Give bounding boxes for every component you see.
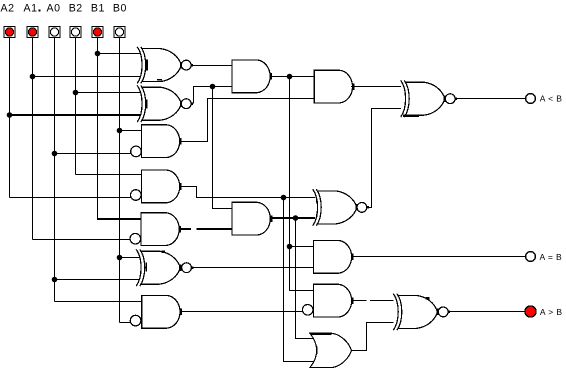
wire A1 to U1 XNOR input 2 bbox=[33, 76, 141, 78]
wire U13 output to U15 input 1 bbox=[353, 300, 366, 302]
switch SW-B2 (off) bbox=[70, 26, 81, 37]
or U16 (bottom OR) bbox=[310, 333, 352, 368]
and U7 with inverted low input (A0 AND !B0) bbox=[130, 295, 182, 328]
xnor U2 (bit2 equality) bbox=[137, 85, 193, 122]
and U10 (A less path) bbox=[314, 70, 354, 103]
switch SW-B0 (off) bbox=[114, 26, 125, 37]
wire U12 output to LED A=B bbox=[353, 256, 525, 258]
junction dot A0/U6 bbox=[52, 277, 58, 283]
svg-text:A = B: A = B bbox=[540, 252, 563, 262]
wire B2 to U4 AND input 1 bbox=[76, 174, 142, 176]
junction dot A1/U1 bbox=[30, 74, 36, 80]
stray dot before A0 label bbox=[39, 10, 41, 12]
wire B0 to U6 XNOR input 1 bbox=[120, 257, 140, 259]
junction dot U2 net bbox=[210, 84, 216, 90]
U2 high-input tick on arc bbox=[146, 99, 148, 108]
and U13 with inverted low input (A greater path) bbox=[302, 284, 353, 317]
wire A2 column vertical bbox=[9, 38, 11, 198]
wire U8 net down to U12 input 1 bbox=[290, 77, 314, 247]
wire A1 column vertical bbox=[32, 38, 34, 240]
U6 high-input tick on arc bbox=[145, 263, 147, 272]
svg-text:A > B: A > B bbox=[540, 307, 563, 317]
wire U14 output to LED A&lt;B bbox=[455, 98, 526, 100]
junction dot B0/U3 bbox=[117, 128, 123, 134]
svg-text:A0: A0 bbox=[47, 3, 61, 15]
svg-text:B2: B2 bbox=[69, 3, 83, 15]
U6 top edge tick bbox=[162, 251, 165, 253]
wire U11 output up to U14 input 2 bbox=[367, 109, 401, 208]
U16 input tick on arc bbox=[316, 347, 318, 355]
wire A0 column vertical bbox=[54, 38, 56, 302]
wire B0 column vertical bbox=[119, 38, 121, 323]
wire OR U16 output to U15 input 2 bbox=[352, 323, 394, 351]
svg-text:A < B: A < B bbox=[540, 94, 563, 104]
wire A1 to U5 AND inverted input bbox=[33, 239, 130, 241]
wire U9 net down to OR U16 input 1 bbox=[296, 218, 314, 339]
and U8 (eq2 AND eq1) bbox=[232, 60, 272, 93]
and U3 with inverted low input (B0 AND !A0) bbox=[131, 125, 182, 158]
wire U4 net down to OR U16 input 2 bbox=[284, 198, 314, 362]
xnor U1 (bit1 equality) bbox=[137, 47, 193, 84]
wire U15 output to LED A&gt;B bbox=[448, 311, 525, 313]
wire A0 to U7 AND input 1 bbox=[55, 301, 142, 303]
U1 high-input tick on arc bbox=[145, 59, 148, 70]
wire U9 output to U11 input 2 (thick) bbox=[270, 217, 315, 219]
wire U10 output to U14 input 1 bbox=[351, 86, 401, 88]
wire U13 output segment 2 bbox=[370, 300, 394, 302]
wire B0 to U3 AND input 1 bbox=[120, 130, 142, 132]
switch SW-B1 (on) bbox=[92, 26, 103, 37]
wire B2 to U2 XNOR input 1 bbox=[76, 92, 141, 94]
wire U6 output to U12 input 2 bbox=[192, 267, 314, 269]
svg-text:B1: B1 bbox=[91, 3, 105, 15]
xnor U15 (A greater output gate) bbox=[393, 294, 450, 331]
LED output A=B (off) bbox=[526, 252, 536, 262]
and U4 with inverted low input (B2 AND !A2) bbox=[131, 170, 182, 203]
xnor U6 (bit0 equality) bbox=[136, 249, 193, 286]
wire A2 to U2 XNOR input 2 (high, thick) bbox=[10, 114, 141, 116]
svg-text:A2: A2 bbox=[1, 3, 15, 15]
junction dot U9 net bbox=[293, 215, 299, 221]
and U9 (mid-level AND) bbox=[232, 202, 272, 235]
junction dot A2/U2 bbox=[7, 112, 13, 118]
LED output A&lt;B (off) bbox=[526, 94, 536, 104]
junction dot B0/U6 bbox=[117, 255, 123, 261]
U11 input ticks on arc bbox=[316, 200, 318, 203]
LED output A&gt;B (on, red) bbox=[525, 306, 536, 317]
xnor U11 (mid-right) bbox=[313, 189, 369, 226]
switch SW-A2 (on) bbox=[4, 26, 15, 37]
wire B1 column vertical bbox=[97, 38, 99, 220]
xnor U14 (A less output gate) bbox=[401, 80, 458, 117]
wire B1 to U1 XNOR input 1 bbox=[98, 53, 141, 55]
junction dot B2/U2 bbox=[73, 90, 79, 96]
wire A0 to U6 XNOR input 2 bbox=[55, 279, 140, 281]
switch SW-A1 (on) bbox=[27, 26, 38, 37]
wire U7 output to U13 inverted input bbox=[180, 311, 303, 313]
wire U5 output stub (thick) bbox=[179, 228, 191, 230]
and U12 (A equal output gate) bbox=[313, 240, 353, 273]
U16 thick top edge (high input) bbox=[310, 333, 331, 335]
svg-text:A1: A1 bbox=[24, 3, 38, 15]
wire B2 column vertical bbox=[75, 38, 77, 175]
junction dot U8 net at U12 bbox=[287, 244, 293, 250]
wire U5 output to U9 input 2 (thick) bbox=[197, 228, 233, 230]
wire A0 to U3 AND inverted input bbox=[55, 153, 132, 155]
wire U2 output up to U8 input 2 bbox=[194, 87, 233, 104]
junction dot A0/U3 bbox=[52, 151, 58, 157]
wire U1 output to U8 input 1 bbox=[191, 65, 232, 67]
wire U3 output up to U10 input 2 bbox=[179, 99, 314, 142]
wire U8 net down to U13 input 1 bbox=[290, 247, 314, 291]
wire A2 to U4 AND inverted input bbox=[10, 197, 131, 199]
wire B0 to U7 AND inverted input bbox=[120, 322, 131, 324]
and U5 with inverted low input (B1 AND !A1) bbox=[130, 213, 181, 246]
junction dot B1/U1 bbox=[95, 51, 101, 57]
wire U4 output to XNOR U11 input 1 bbox=[179, 187, 315, 198]
wire B1 to U5 AND input 1 (high, thick) bbox=[98, 218, 142, 220]
wire U8 output to U10 input 1 bbox=[270, 76, 314, 78]
wire U2 net down to U9 input 1 bbox=[213, 87, 233, 209]
switch SW-A0 (off) bbox=[49, 26, 60, 37]
svg-text:B0: B0 bbox=[113, 3, 127, 15]
U15 top edge tick bbox=[426, 297, 430, 300]
U14 thick low input edge bbox=[403, 115, 419, 117]
junction dot U8 output bbox=[287, 74, 293, 80]
junction dot U4 net bbox=[281, 195, 287, 201]
